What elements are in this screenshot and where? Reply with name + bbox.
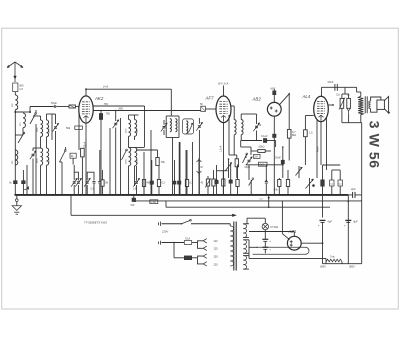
oscillator coil pair primary [166,115,179,117]
svg-text:20pF: 20pF [245,166,251,169]
antenna [7,62,23,68]
tone trimmer [332,105,334,109]
capacitor dark row h [150,181,153,184]
svg-text:5nF: 5nF [131,204,136,207]
wire b+ rail right drop [347,195,349,218]
capacitor AF7 grid [201,106,206,111]
svg-text:AL4: AL4 [302,94,311,99]
wire output top rail [322,86,357,88]
svg-text:220: 220 [214,263,219,266]
svg-text:D1A: D1A [186,237,191,240]
oscillator feedback coil loop [183,119,194,134]
wire tuning top rail [29,107,31,113]
svg-text:4μF: 4μF [327,220,332,224]
svg-text:110: 110 [214,240,219,243]
wire heater rail 2 [166,206,330,208]
capacitor dark row j [173,181,176,184]
capacitor pair c [86,181,89,183]
svg-text:1M: 1M [254,156,257,159]
oscillator coil secondary [135,120,137,137]
resistor grid stopper [69,105,75,108]
wire switch3 drop [61,162,63,195]
output transformer core [364,96,366,113]
resistor row i [157,180,160,187]
wire right cluster tops [323,164,341,166]
capacitor 10nF above AB2 [273,95,275,102]
antenna transformer primary coil [40,116,42,120]
choke Dr box [70,153,76,158]
oscillator padding trimmer [198,118,200,124]
oscillator coil primary [129,120,131,137]
wire output bottom rail [348,114,350,123]
coil L2 LW [23,113,25,128]
svg-text:125: 125 [214,248,219,251]
resistor row m [206,179,209,186]
trimmer row f [135,181,138,183]
svg-text:+: + [318,224,320,228]
speaker [377,100,385,109]
wire antenna down-lead [14,110,16,195]
svg-text:63+A: 63+A [84,141,87,147]
svg-text:TT-GEBIETS KW2: TT-GEBIETS KW2 [84,221,107,225]
mains terminal N [160,241,162,245]
svg-text:Dr: Dr [71,154,74,158]
wire AF7 anode lead [223,86,225,97]
wire field resistor right [341,262,343,264]
wire AL4 grid lead [305,115,313,117]
svg-text:2μF: 2μF [351,187,356,191]
svg-text:AB2: AB2 [252,97,262,102]
node rail junction [268,197,270,199]
capacitor 0.1 a [330,180,334,186]
electrolytic heater cap a [264,230,266,240]
tube AB2 [267,102,281,116]
wire HV bottom to field resistor [248,240,250,259]
wire AB2 top bend [279,94,289,129]
capacitor row t [265,180,267,181]
mains switch [182,220,191,224]
electrolytic 4uF b [322,195,324,218]
resistor 50k below AK2 [75,126,83,129]
band switch S4 [122,150,127,160]
capacitor dark row o [215,180,218,183]
transformer secondary heater2 [243,256,246,270]
resistor det 1 [235,159,238,167]
resistor 0.3M vertical [81,148,85,157]
capacitor e [98,181,101,183]
svg-text:88V: 88V [119,106,124,110]
wire left verticals [26,165,28,195]
wire heater rail 1 [136,200,362,202]
node antenna junction [14,111,16,113]
svg-text:1,5: 1,5 [309,132,313,135]
wire grid cap to tube [205,108,216,110]
switch det [243,154,247,163]
svg-text:50k: 50k [66,126,71,130]
dial lamp [247,217,265,219]
svg-text:750: 750 [106,112,111,116]
capacitor 2uF series in bus [348,194,352,196]
IF transformer T2 secondary [135,148,137,166]
svg-text:70V: 70V [104,102,109,106]
capacitor 5nF below bus [133,195,135,198]
wire AZ1 cathode line [301,242,322,244]
svg-text:AK2: AK2 [94,96,104,101]
box 5n [258,162,267,166]
wire AF7 screen [228,115,230,155]
resistor row g [142,180,145,187]
wire coil return [15,134,23,136]
wire AZ1 filament loop [253,247,310,254]
tube AK2 [79,96,93,123]
wire mid verticals [179,142,181,195]
wire AK2 cathode drop [85,123,87,194]
wire AZ1 anode top [293,232,295,237]
voltage selector tap 125 [203,246,207,250]
wire AK2 anode to 2+A rail [85,89,87,96]
capacitor row trimmer b [77,181,80,183]
oscillator tuning trimmer [163,120,165,125]
svg-text:MΩ: MΩ [292,133,296,137]
field resistor zigzag [326,259,342,262]
svg-text:4mA: 4mA [316,146,320,152]
antenna coil L1 [14,92,16,95]
resistor row l [185,180,188,187]
wire to band coil [15,111,23,113]
capacitor ant trimmer C5 [22,181,26,184]
svg-text:7mk: 7mk [330,255,335,258]
svg-text:4M: 4M [147,183,150,185]
IF transformer T2 primary [129,148,131,166]
resistor 50k mid [156,158,159,166]
wire det verticals [240,141,242,148]
svg-text:1,5+A: 1,5+A [220,145,223,152]
resistor row v [286,180,289,187]
fuse D2 [167,243,169,258]
capacitor pair d [93,181,96,183]
wire fuse1 to selector [198,241,204,243]
tube AF7 [216,96,231,123]
svg-text:380V: 380V [320,266,326,269]
wire coil bottoms [40,137,42,148]
wire avc rail [229,154,237,156]
volume trimmer 20pF [248,159,251,161]
resistor row n [212,179,215,186]
transformer secondary heater1 [243,240,246,254]
wire bus tail [355,194,362,196]
voltage selector tap 110 [203,239,207,243]
wire switch drop [35,124,37,195]
detector coupling capacitor 0.1uF [241,140,262,142]
IF transformer T3 secondary [241,120,243,135]
capacitor padder 750 [100,111,102,114]
capacitor 20nF series [334,84,336,91]
speaker voice coil [369,101,371,109]
capacitor 0.1uF AB2 [273,134,276,137]
svg-text:20nF: 20nF [328,80,334,84]
svg-text:∆2kΩ: ∆2kΩ [259,146,265,149]
oscillator coil pair secondary [175,119,177,132]
svg-text:KT18A: KT18A [271,226,279,229]
svg-text:+: + [344,224,346,228]
wire AB2 diode load [273,116,275,134]
wire avc bridge [217,170,228,172]
wire AK2 screen drop [78,113,80,150]
wire T2 to 50k [136,149,158,151]
svg-text:AF7: AF7 [205,96,215,101]
resistor dark tone [321,180,325,186]
svg-text:1,5: 1,5 [19,87,23,91]
resistor row p [222,179,225,186]
transformer core [233,222,235,271]
node bus left [14,194,16,196]
wire rail1 to AZ1 [281,201,283,234]
resistor row u 40k [278,180,281,187]
wire rail drop to oscillator [170,89,172,116]
box C-Abgl [150,200,158,204]
capacitor 50pF series [53,105,55,108]
svg-text:2+A: 2+A [102,85,108,89]
capacitor tone [347,98,351,108]
capacitor dark row k [178,181,181,184]
potentiometer AVC [298,166,300,178]
svg-text:3 W 56: 3 W 56 [367,121,383,169]
wire bridge a [74,172,78,180]
wire AL4 screen lead [328,104,333,106]
svg-text:220V: 220V [161,230,168,234]
coil pair band2 primary [41,148,43,165]
wire bridge b [87,172,94,180]
choke Dr2 symbol [198,158,200,176]
svg-text:0,1μF: 0,1μF [261,134,268,138]
coil pair band2 secondary [47,148,49,165]
resistor 0.7M [287,130,291,139]
wire mains arrow line [70,196,72,216]
wire fuse2 to selector [198,256,204,258]
band switch S1 [30,114,36,125]
wire 88V rail [93,110,201,112]
fuse D1 [184,241,191,245]
transformer primary winding [229,224,231,226]
oscillator tuning capacitor [115,111,117,122]
voltage selector tap 150 [203,254,207,258]
svg-text:150: 150 [214,256,219,259]
svg-text:1M: 1M [105,183,108,185]
tube AL4 [314,96,329,121]
antenna series capacitor 500pF [13,83,18,92]
wire AL4 anode to top rail [321,87,323,96]
wire osc verticals [109,128,111,195]
wire osc coil bottoms [128,136,130,147]
padding trimmer band2 [32,148,34,151]
switch row s [250,180,252,195]
wire 70V rail [93,105,144,107]
capacitor 5n at ground [14,181,18,184]
capacitor 0.1 b [338,180,342,186]
capacitor dark row q [229,180,232,183]
electrolytic heater cap b [262,246,268,248]
band switch S3 [60,151,66,163]
svg-text:C.Ab: C.Ab [151,201,157,204]
voltage selector tap 220 [203,262,207,266]
mains terminal L [160,222,162,227]
resistor row r [236,180,239,187]
output transformer primary [356,87,358,92]
resistor AL4 cathode 1.5k [304,130,308,137]
chassis bus wire [15,194,348,196]
coil L3 band2 [15,150,18,165]
wire osc section drops [150,130,152,195]
wire AB2 rail drop [275,177,277,179]
wire tone tops [342,93,349,95]
capacitor row trimmer a [73,181,76,183]
rectifier tube AZ1 [287,236,301,250]
svg-text:Dr: Dr [201,166,204,169]
box 1M 0.3 [254,154,260,158]
transformer secondary HV [243,223,245,225]
wire to AK2 grid [56,106,69,108]
resistor 1M row [101,180,104,186]
svg-text:50pF: 50pF [51,101,57,105]
band switch S2 [18,133,24,143]
wire AF7 cathode [223,123,225,195]
svg-text:W:V 2+A: W:V 2+A [218,82,229,86]
wire b+ vertical right [361,195,363,264]
resistor tone 5k [340,98,344,108]
svg-text:20nF: 20nF [275,156,281,160]
svg-text:380V: 380V [349,266,355,269]
ground symbol [16,195,18,199]
IF transformer T3 primary [231,105,234,107]
electrolytic 4uF a [347,218,349,227]
potentiometer tone [309,178,311,195]
wire AL4 bottom leads [316,121,318,143]
wire secondary top [51,114,53,140]
wire 2+A rail [86,88,171,90]
potentiometer volume [228,159,230,178]
IF trimmer 50 [256,121,258,124]
svg-text:4μF: 4μF [353,220,358,224]
tuning capacitor VC1 [55,114,57,124]
jack Y symbol [347,108,351,111]
antenna transformer secondary coil [46,114,48,120]
